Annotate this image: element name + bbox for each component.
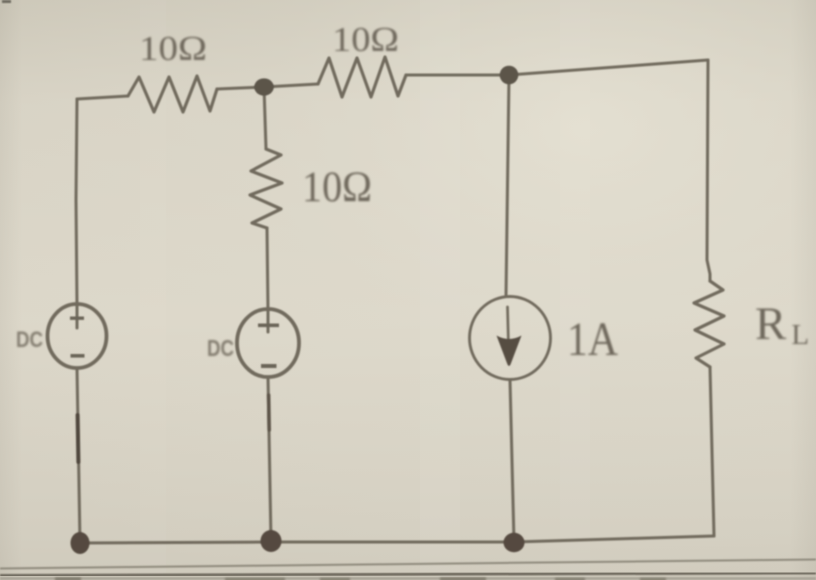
resistor RL zigzag [694,281,724,367]
resistor R2 10ohm zigzag [318,57,406,97]
bottom band smudges [55,578,666,580]
wire: R3 to DC2 top [267,228,268,311]
V2 plus sign bar [258,324,279,328]
wire: bottom horizontal [80,536,714,543]
wire: current source bottom to junction [510,380,514,542]
wire: left vertical (top corner to DC1 top) [76,99,77,306]
node A junction dot [254,78,274,95]
wire: R2 to node B [406,74,509,77]
svg-text:DC: DC [207,335,234,361]
svg-text:10Ω: 10Ω [139,29,207,68]
resistor R1 10ohm zigzag [128,76,217,112]
bottom edge band [0,577,816,580]
wire: dark patch on V2 lower lead [267,395,271,430]
current source arrow shaft [508,307,509,346]
wire: dark patch on V1 lower lead [76,415,81,462]
svg-text:1A: 1A [567,313,618,366]
svg-text:10Ω: 10Ω [302,164,372,211]
V1 minus sign bar [71,354,85,358]
bottom rule line A [0,560,816,569]
dark mark top-left corner [2,0,11,3]
bottom-right junction dot [504,533,525,553]
wire: R1 to node A [217,87,264,89]
svg-text:10Ω: 10Ω [332,20,399,59]
current source arrowhead [497,336,522,367]
wire: node B to top-right corner [509,60,708,75]
voltage source V1 circle [48,304,107,368]
wire: node B down to current source [506,75,509,296]
node B junction dot [500,66,519,85]
wire: into DC1 circle (plus stem) [76,306,79,328]
wire: right vertical down to RL [707,60,710,281]
wire: into DC2 circle (plus stem) [267,311,270,332]
wire: RL bottom to bottom-right corner [710,367,714,536]
voltage source V2 circle [237,309,299,377]
wire: node A down to R3 [264,87,266,149]
bottom-left junction dot [71,532,90,554]
V1 plus sign bar [70,317,84,320]
current source I1 circle [470,297,551,380]
wire: left vertical below DC1 to bottom junction [77,368,80,543]
resistor R3 10ohm vertical zigzag [250,149,282,228]
bottom-middle junction dot [261,530,282,552]
svg-text:DC: DC [16,327,43,352]
wire: DC2 bottom to junction [268,377,271,541]
V2 minus sign bar [261,364,277,368]
bottom rule line B [0,573,816,576]
wire: top-left horizontal into R1 [77,96,128,99]
wire: node A to R2 [264,84,318,87]
